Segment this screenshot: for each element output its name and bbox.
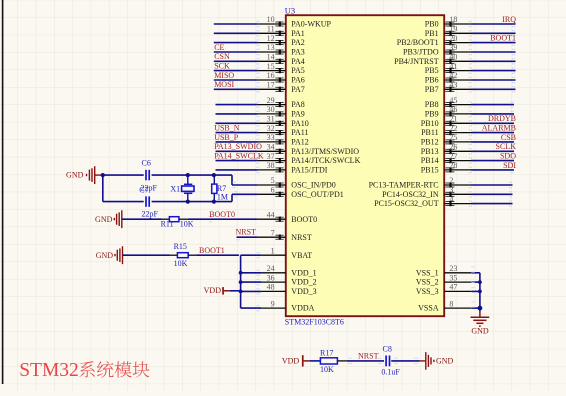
svg-text:33: 33 xyxy=(267,133,275,142)
wire VDDA xyxy=(241,307,262,309)
svg-text:45: 45 xyxy=(449,96,457,105)
wire NRST xyxy=(237,236,258,238)
pin 7 NRST (left) xyxy=(258,236,286,238)
junction crystal bottom xyxy=(186,200,190,204)
svg-text:PA7: PA7 xyxy=(291,85,305,94)
svg-text:PB14: PB14 xyxy=(421,156,439,165)
svg-text:30: 30 xyxy=(267,105,275,114)
pin 5 OSC_IN/PD0 (left) xyxy=(258,184,286,186)
svg-text:PB12: PB12 xyxy=(421,138,439,147)
svg-text:19: 19 xyxy=(449,25,457,34)
svg-text:PB5: PB5 xyxy=(425,66,439,75)
wire from PB4/JNTRST xyxy=(471,60,516,62)
svg-text:PB10: PB10 xyxy=(421,119,439,128)
svg-text:PB8: PB8 xyxy=(425,100,439,109)
pin 34 PA13/JTMS/SWDIO (left) xyxy=(258,150,286,152)
resistor R11 xyxy=(169,217,179,222)
svg-text:PC14-OSC32_IN: PC14-OSC32_IN xyxy=(382,190,439,199)
svg-text:39: 39 xyxy=(449,43,457,52)
pin 1 VBAT (left) xyxy=(261,254,285,256)
svg-text:47: 47 xyxy=(449,283,457,292)
svg-text:10K: 10K xyxy=(174,259,188,268)
junction VSSA xyxy=(478,306,483,311)
pin 21 PB10 (right) xyxy=(444,122,471,124)
svg-text:PA6: PA6 xyxy=(291,76,305,85)
wire from PC14-OSC32_IN xyxy=(471,193,513,195)
svg-text:C7: C7 xyxy=(139,186,148,195)
pin 30 PA9 (left) xyxy=(258,113,286,115)
wire VSSA xyxy=(472,307,480,309)
pin 17 PA7 (left) xyxy=(258,88,286,90)
svg-text:36: 36 xyxy=(267,273,275,282)
pin 24 VDD_1 (left) xyxy=(261,272,285,274)
svg-text:22pF: 22pF xyxy=(142,209,159,218)
wire C8 to GND xyxy=(391,360,419,362)
wire from PB7 xyxy=(471,88,516,90)
svg-text:24: 24 xyxy=(267,264,275,273)
svg-text:SDO: SDO xyxy=(500,152,516,161)
svg-text:BOOT0: BOOT0 xyxy=(291,215,317,224)
svg-text:10K: 10K xyxy=(320,365,334,374)
svg-text:42: 42 xyxy=(449,71,457,80)
wire VBAT xyxy=(241,254,262,256)
wire: bottom rail to OSC_OUT pin xyxy=(231,194,233,201)
pin 22 PB11 (right) xyxy=(444,132,471,134)
pin 37 PA14/JTCK/SWCLK (left) xyxy=(258,160,286,162)
svg-text:PB11: PB11 xyxy=(421,128,439,137)
pin 31 PA10 (left) xyxy=(258,122,286,124)
svg-text:1: 1 xyxy=(271,246,275,255)
wire to PA13/JTMS/SWDIO xyxy=(216,150,258,152)
svg-text:USB_N: USB_N xyxy=(214,124,240,133)
pin 25 PB12 (right) xyxy=(444,141,471,143)
junction VSS_2 xyxy=(478,280,482,284)
svg-text:21: 21 xyxy=(449,115,457,124)
svg-text:GND: GND xyxy=(96,251,114,260)
svg-text:SCK: SCK xyxy=(214,62,230,71)
pin 45 PB8 (right) xyxy=(444,104,471,106)
node: VDD bus vertical xyxy=(240,255,242,308)
svg-text:VDD: VDD xyxy=(282,357,300,366)
svg-text:OSC_OUT/PD1: OSC_OUT/PD1 xyxy=(291,190,343,199)
svg-text:PA2: PA2 xyxy=(291,38,305,47)
junction R7 top xyxy=(212,173,216,177)
resistor R7 xyxy=(213,175,215,184)
svg-text:6: 6 xyxy=(271,186,275,195)
svg-text:CSB: CSB xyxy=(501,133,516,142)
wire to PA9 xyxy=(216,113,258,115)
IC U3 body xyxy=(286,15,444,316)
svg-text:PA0-WKUP: PA0-WKUP xyxy=(291,20,331,29)
wire from PB14 xyxy=(471,160,514,162)
svg-text:38: 38 xyxy=(267,161,275,170)
pin 13 PA3 (left) xyxy=(258,51,286,53)
wire from PB11 xyxy=(471,132,514,134)
wire from PB1 xyxy=(471,32,516,34)
svg-text:U3: U3 xyxy=(285,5,295,15)
svg-text:STM32F103C8T6: STM32F103C8T6 xyxy=(285,317,344,326)
crystal X1 xyxy=(187,175,189,184)
wire from PC13-TAMPER-RTC xyxy=(471,184,513,186)
pin 28 PB15 (right) xyxy=(444,169,471,171)
wire to PA14/JTCK/SWCLK xyxy=(216,160,258,162)
svg-text:VSS_3: VSS_3 xyxy=(416,287,439,296)
wire R15 to BOOT1 xyxy=(188,254,196,256)
svg-text:VDDA: VDDA xyxy=(291,304,314,313)
wire VDD_2 xyxy=(241,281,262,283)
svg-text:1M: 1M xyxy=(217,193,228,202)
wire: osc left vertical xyxy=(102,175,104,202)
svg-text:10: 10 xyxy=(267,15,275,24)
pin 44 BOOT0 (left) xyxy=(258,218,286,220)
svg-text:27: 27 xyxy=(449,152,457,161)
svg-text:GND: GND xyxy=(471,327,489,336)
svg-text:VBAT: VBAT xyxy=(291,251,312,260)
pin 33 PA12 (left) xyxy=(258,141,286,143)
wire from PB13 xyxy=(471,150,514,152)
svg-text:12: 12 xyxy=(267,34,275,43)
svg-text:9: 9 xyxy=(271,299,275,308)
svg-text:C6: C6 xyxy=(142,159,151,168)
svg-text:CSN: CSN xyxy=(214,52,230,61)
svg-text:17: 17 xyxy=(267,81,275,90)
pin 16 PA6 (left) xyxy=(258,79,286,81)
svg-text:32: 32 xyxy=(267,124,275,133)
svg-text:X1: X1 xyxy=(170,184,180,193)
wire to PA12 xyxy=(216,141,258,143)
wire R17 to C8 xyxy=(337,360,347,362)
pin 19 PB1 (right) xyxy=(444,32,471,34)
svg-text:PB6: PB6 xyxy=(425,76,439,85)
svg-text:PA14_SWCLK: PA14_SWCLK xyxy=(214,152,264,161)
svg-text:R17: R17 xyxy=(320,348,333,357)
svg-text:43: 43 xyxy=(449,81,457,90)
svg-text:8: 8 xyxy=(449,299,453,308)
svg-text:R11: R11 xyxy=(161,220,174,229)
pin 11 PA1 (left) xyxy=(258,32,286,34)
wire to PA11 xyxy=(216,132,258,134)
pin 10 PA0-WKUP (left) xyxy=(258,23,286,25)
svg-text:DRDYB: DRDYB xyxy=(488,114,516,123)
svg-text:VDD_1: VDD_1 xyxy=(291,268,316,277)
svg-text:GND: GND xyxy=(436,357,454,366)
svg-text:37: 37 xyxy=(267,152,275,161)
svg-text:10K: 10K xyxy=(180,220,194,229)
svg-text:CE: CE xyxy=(214,43,224,52)
pin 41 PB5 (right) xyxy=(444,70,471,72)
pin 32 PA11 (left) xyxy=(258,132,286,134)
resistor R15 xyxy=(177,253,188,258)
wire gnd to R11 xyxy=(122,218,162,220)
wire VDD_1 xyxy=(241,272,262,274)
svg-text:R15: R15 xyxy=(174,242,187,251)
svg-text:11: 11 xyxy=(267,25,275,34)
svg-text:MOSI: MOSI xyxy=(214,80,234,89)
pin 39 PB3/JTDO (right) xyxy=(444,51,471,53)
pin 4 PC15-OSC32_OUT (right) xyxy=(444,203,471,205)
svg-text:PB3/JTDO: PB3/JTDO xyxy=(403,48,439,57)
svg-text:GND: GND xyxy=(66,171,84,180)
pin 35 VSS_2 (right) xyxy=(444,281,472,283)
svg-text:NRST: NRST xyxy=(358,352,379,361)
svg-text:40: 40 xyxy=(449,53,457,62)
svg-text:PA15/JTDI: PA15/JTDI xyxy=(291,166,327,175)
wire to PA4 xyxy=(214,60,258,62)
svg-text:PA13/JTMS/SWDIO: PA13/JTMS/SWDIO xyxy=(291,147,359,156)
svg-text:STM32: STM32 xyxy=(19,360,79,381)
pin 15 PA5 (left) xyxy=(258,70,286,72)
ground (bottom right) xyxy=(426,352,431,370)
svg-text:PA14/JTCK/SWCLK: PA14/JTCK/SWCLK xyxy=(291,156,360,165)
capacitor C6 xyxy=(146,170,149,180)
wire VSS_2 xyxy=(472,281,480,283)
svg-text:OSC_IN/PD0: OSC_IN/PD0 xyxy=(291,181,335,190)
svg-text:VSS_1: VSS_1 xyxy=(416,268,439,277)
svg-text:PB9: PB9 xyxy=(425,110,439,119)
wire from PB6 xyxy=(471,79,516,81)
wire to PA0-WKUP xyxy=(214,23,258,25)
svg-text:GND: GND xyxy=(95,215,113,224)
wire from PB8 xyxy=(471,104,514,106)
pin 2 PC13-TAMPER-RTC (right) xyxy=(444,184,471,186)
svg-text:PA12: PA12 xyxy=(291,138,309,147)
svg-text:13: 13 xyxy=(267,43,275,52)
wire VDD to R17 xyxy=(310,360,320,362)
svg-text:15: 15 xyxy=(267,62,275,71)
wire from PB3/JTDO xyxy=(471,51,516,53)
wire from PB5 xyxy=(471,70,516,72)
svg-text:PA9: PA9 xyxy=(291,110,305,119)
wire VSS_3 xyxy=(472,290,480,292)
wire VSS_1 xyxy=(472,272,480,274)
svg-text:2: 2 xyxy=(449,176,453,185)
ground (VSS) xyxy=(479,311,481,317)
svg-text:7: 7 xyxy=(271,228,275,237)
svg-text:35: 35 xyxy=(449,273,457,282)
wire to PA6 xyxy=(214,79,258,81)
pin 6 OSC_OUT/PD1 (left) xyxy=(258,193,286,195)
svg-text:PB4/JNTRST: PB4/JNTRST xyxy=(394,57,439,66)
pin 3 PC14-OSC32_IN (right) xyxy=(444,193,471,195)
svg-text:41: 41 xyxy=(449,62,457,71)
svg-text:SDI: SDI xyxy=(503,161,516,170)
wire: top rail to OSC_IN pin xyxy=(231,175,233,185)
junction VDD_1 xyxy=(239,271,243,275)
svg-text:VDD: VDD xyxy=(204,286,222,295)
wire to PA2 xyxy=(214,42,258,44)
wire to PA5 xyxy=(214,70,258,72)
wire from PB12 xyxy=(471,141,514,143)
svg-text:26: 26 xyxy=(449,143,457,152)
svg-text:18: 18 xyxy=(449,15,457,24)
capacitor C7 (lower 22pF) xyxy=(146,196,149,206)
svg-text:28: 28 xyxy=(449,161,457,170)
pin 43 PB7 (right) xyxy=(444,88,471,90)
svg-text:5: 5 xyxy=(271,176,275,185)
svg-text:31: 31 xyxy=(267,115,275,124)
wire from PB9 xyxy=(471,113,514,115)
svg-text:PC13-TAMPER-RTC: PC13-TAMPER-RTC xyxy=(369,181,439,190)
wire from PB10 xyxy=(471,122,514,124)
svg-text:3: 3 xyxy=(449,186,453,195)
svg-text:25: 25 xyxy=(449,133,457,142)
wire to PA1 xyxy=(214,32,258,34)
svg-text:4: 4 xyxy=(449,195,453,204)
sheet border xyxy=(2,0,4,384)
wire to PA10 xyxy=(216,122,258,124)
pin 29 PA8 (left) xyxy=(258,104,286,106)
svg-text:44: 44 xyxy=(267,210,275,219)
pin 46 PB9 (right) xyxy=(444,113,471,115)
svg-text:23: 23 xyxy=(449,264,457,273)
svg-text:PA4: PA4 xyxy=(291,57,305,66)
wire from PB2/BOOT1 xyxy=(471,42,516,44)
svg-text:R7: R7 xyxy=(217,184,226,193)
svg-text:34: 34 xyxy=(267,143,275,152)
wire to PA3 xyxy=(214,51,258,53)
svg-text:PA8: PA8 xyxy=(291,100,305,109)
svg-text:IRQ: IRQ xyxy=(502,15,516,24)
svg-text:C8: C8 xyxy=(383,344,392,353)
junction top-left xyxy=(101,173,105,177)
resistor R17 xyxy=(320,358,337,364)
svg-text:PA3: PA3 xyxy=(291,48,305,57)
svg-text:0.1uF: 0.1uF xyxy=(381,368,400,377)
svg-text:PC15-OSC32_OUT: PC15-OSC32_OUT xyxy=(374,199,439,208)
wire to PA7 xyxy=(214,88,258,90)
pin 38 PA15/JTDI (left) xyxy=(258,169,286,171)
svg-text:VSS_2: VSS_2 xyxy=(416,278,439,287)
svg-text:PB15: PB15 xyxy=(421,166,439,175)
junction R7 bottom xyxy=(212,200,216,204)
svg-text:PB2/BOOT1: PB2/BOOT1 xyxy=(397,38,439,47)
svg-text:SCLK: SCLK xyxy=(496,142,517,151)
svg-text:NRST: NRST xyxy=(236,228,257,237)
wire to PA15/JTDI xyxy=(216,169,258,171)
svg-text:USB_P: USB_P xyxy=(214,133,239,142)
pin 18 PB0 (right) xyxy=(444,23,471,25)
svg-text:PB13: PB13 xyxy=(421,147,439,156)
pin 20 PB2/BOOT1 (right) xyxy=(444,42,471,44)
pin 14 PA4 (left) xyxy=(258,60,286,62)
svg-text:PB1: PB1 xyxy=(425,29,439,38)
pin 26 PB13 (right) xyxy=(444,150,471,152)
capacitor C8 xyxy=(386,356,389,367)
junction VDD_2 xyxy=(239,280,243,284)
svg-text:ALARMB: ALARMB xyxy=(482,124,516,133)
svg-text:46: 46 xyxy=(449,105,457,114)
wire from PB15 xyxy=(471,169,514,171)
junction VDD_3 xyxy=(239,290,243,294)
pin 9 VDDA (left) xyxy=(261,307,285,309)
wire gnd to R15 xyxy=(123,254,170,256)
svg-text:BOOT0: BOOT0 xyxy=(209,210,235,219)
svg-text:PA11: PA11 xyxy=(291,128,308,137)
wire VDD_3 xyxy=(241,290,262,292)
svg-text:PA10: PA10 xyxy=(291,119,309,128)
junction VSS_3 xyxy=(478,290,482,294)
junction crystal top xyxy=(186,173,190,177)
wire from PB0 xyxy=(471,23,516,25)
node: osc top rail xyxy=(101,174,144,176)
svg-text:48: 48 xyxy=(267,283,275,292)
svg-text:PA13_SWDIO: PA13_SWDIO xyxy=(214,142,262,151)
wire to PA8 xyxy=(216,104,258,106)
pin 8 VSSA (right) xyxy=(444,307,472,309)
svg-text:14: 14 xyxy=(267,53,275,62)
pin 47 VSS_3 (right) xyxy=(444,290,472,292)
pin 23 VSS_1 (right) xyxy=(444,272,472,274)
svg-text:VDD_2: VDD_2 xyxy=(291,278,316,287)
pin 48 VDD_3 (left) xyxy=(261,290,285,292)
svg-text:BOOT1: BOOT1 xyxy=(490,34,516,43)
svg-text:NRST: NRST xyxy=(291,233,312,242)
node: VSS bus vertical xyxy=(479,273,481,311)
svg-text:VSSA: VSSA xyxy=(418,304,439,313)
node: osc bottom rail xyxy=(103,201,144,203)
svg-text:PB7: PB7 xyxy=(425,85,439,94)
svg-text:16: 16 xyxy=(267,71,275,80)
pin 36 VDD_2 (left) xyxy=(261,281,285,283)
svg-text:22: 22 xyxy=(449,124,457,133)
svg-text:PA5: PA5 xyxy=(291,66,305,75)
pin 27 PB14 (right) xyxy=(444,160,471,162)
svg-text:BOOT1: BOOT1 xyxy=(199,246,225,255)
svg-text:PA1: PA1 xyxy=(291,29,305,38)
svg-text:20: 20 xyxy=(449,34,457,43)
pin 40 PB4/JNTRST (right) xyxy=(444,60,471,62)
svg-text:PB0: PB0 xyxy=(425,20,439,29)
wire R11 to BOOT0 pin xyxy=(179,218,188,220)
pin 12 PA2 (left) xyxy=(258,42,286,44)
pin 42 PB6 (right) xyxy=(444,79,471,81)
svg-text:MISO: MISO xyxy=(214,71,234,80)
svg-text:29: 29 xyxy=(267,96,275,105)
svg-text:VDD_3: VDD_3 xyxy=(291,287,316,296)
wire from PC15-OSC32_OUT xyxy=(471,203,513,205)
